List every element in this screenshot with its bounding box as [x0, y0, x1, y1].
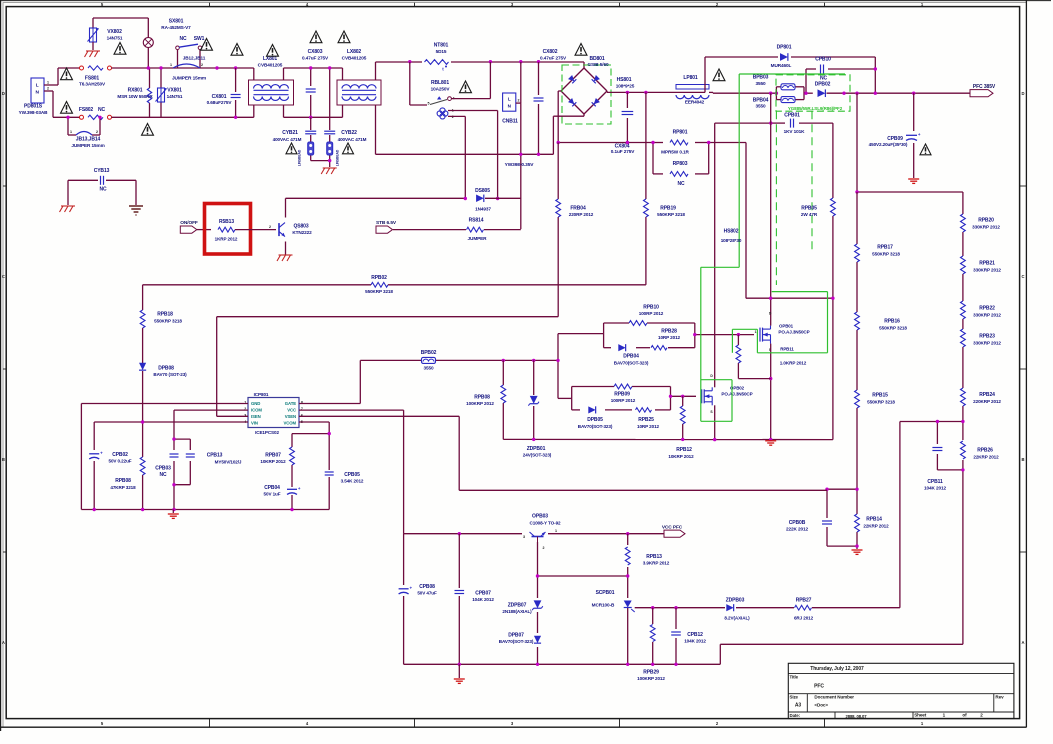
label RP803 — [673, 161, 688, 187]
green heatsink box OPB02 — [701, 379, 732, 381]
svg-text:MY50V/102/J: MY50V/102/J — [215, 460, 242, 465]
label NT801 — [434, 43, 449, 54]
wire relay coil pin2 — [448, 116, 465, 198]
svg-text:RPB07: RPB07 — [265, 453, 281, 459]
label RX801 — [117, 87, 153, 99]
resistor RP801 — [670, 140, 688, 145]
svg-text:1KV 101K: 1KV 101K — [784, 129, 806, 134]
resistor RPB17 — [855, 244, 860, 262]
capacitor CPB08 — [399, 588, 409, 593]
svg-text:RP803: RP803 — [673, 161, 688, 167]
resistor RPB20 — [961, 214, 966, 232]
svg-text:222K 2012: 222K 2012 — [786, 527, 809, 532]
wire RPB05 chain — [832, 123, 834, 440]
svg-text:330KRP 2012: 330KRP 2012 — [973, 312, 1001, 317]
thermistor NT801 — [425, 60, 449, 65]
junction rail B — [408, 60, 540, 63]
svg-text:104K 2012: 104K 2012 — [924, 486, 947, 491]
wire RPB10 loop — [604, 323, 695, 348]
svg-text:NT801: NT801 — [434, 43, 449, 49]
bridge BD801 diodes — [568, 75, 576, 83]
wire OPB02 source — [714, 405, 716, 439]
label LINS BEAD right — [336, 149, 340, 166]
zener ZDPB01 — [528, 396, 539, 406]
transistor QS803 npn — [279, 223, 285, 237]
wire RPB13 branch — [627, 534, 629, 598]
junction BPB input — [769, 92, 778, 95]
wire CX801 vertical — [235, 68, 237, 117]
earth ground CYB13 — [129, 205, 143, 207]
label BPB02 — [421, 350, 437, 370]
svg-text:2888. 08.07: 2888. 08.07 — [845, 714, 867, 719]
label DPB05 — [578, 417, 613, 429]
wire CYB22 vertical — [329, 68, 331, 167]
svg-text:RPB09: RPB09 — [614, 391, 630, 397]
label RS814 — [468, 218, 488, 242]
svg-text:JUMPER 15mm: JUMPER 15mm — [71, 143, 104, 148]
junction SCR gate net — [651, 606, 678, 609]
svg-text:PFC 385V: PFC 385V — [973, 84, 996, 90]
svg-text:330KRP 2012: 330KRP 2012 — [973, 340, 1001, 345]
svg-text:YW398-0.35V: YW398-0.35V — [505, 162, 535, 168]
svg-text:RBL801: RBL801 — [431, 80, 449, 86]
svg-text:<Doc>: <Doc> — [814, 703, 828, 708]
port VCC PFC — [664, 530, 685, 537]
svg-text:CPB13: CPB13 — [207, 453, 223, 459]
zener ZDPB03 — [726, 604, 733, 611]
label OPB02 — [721, 385, 752, 396]
capacitor CX803 — [306, 88, 316, 92]
resistor RPB28 — [651, 346, 667, 350]
bead below CYB21 — [308, 142, 314, 155]
svg-text:RPB12: RPB12 — [676, 447, 692, 453]
label HS801 — [616, 77, 635, 88]
power ground MOSFET — [765, 440, 776, 442]
warning triangle left of CYB21 — [286, 143, 297, 154]
svg-text:NC: NC — [98, 107, 106, 113]
wire rail C to LX801 — [112, 116, 254, 118]
label CYB13 — [94, 168, 110, 192]
svg-text:14N751: 14N751 — [107, 36, 123, 41]
svg-text:50V 0.22uF: 50V 0.22uF — [108, 459, 131, 464]
svg-text:1KRP 2012: 1KRP 2012 — [215, 237, 238, 242]
svg-text:NC: NC — [99, 186, 107, 192]
svg-text:CPB07: CPB07 — [475, 591, 491, 597]
svg-text:GATE: GATE — [285, 401, 296, 406]
svg-text:JB12,JB11: JB12,JB11 — [183, 55, 206, 60]
svg-text:BPB03: BPB03 — [753, 75, 769, 81]
svg-text:5D15: 5D15 — [436, 49, 447, 54]
wire DS805 to corner — [485, 197, 521, 199]
warning triangle right of LP801 — [713, 69, 725, 81]
label SX801 — [161, 19, 191, 30]
label RPB07 — [260, 453, 286, 465]
wire pin3 ISEN — [217, 415, 248, 417]
label RPB09 — [611, 391, 636, 403]
label CPB0B — [786, 520, 809, 532]
junction CX801 bottom — [234, 116, 237, 119]
svg-text:RPB23: RPB23 — [979, 334, 995, 340]
svg-text:PD801S: PD801S — [24, 104, 43, 110]
wire BPB03 loop — [776, 87, 812, 100]
resistor RPB09 — [614, 384, 632, 389]
svg-text:B: B — [2, 457, 5, 462]
svg-text:RPB21: RPB21 — [979, 261, 995, 267]
wire control ground rail — [81, 509, 329, 511]
svg-text:10RP 2012: 10RP 2012 — [637, 424, 660, 429]
svg-text:Sheet: Sheet — [914, 713, 927, 718]
title block grid — [788, 663, 1014, 718]
wire DP801 branch — [705, 57, 875, 93]
jumper JB13,JB14 — [67, 117, 69, 135]
resistor RX801 — [147, 88, 151, 103]
warning triangle right of SW1 — [201, 39, 213, 51]
wire pin5 VCOM — [299, 422, 329, 434]
wire CPB10 loop — [806, 69, 875, 93]
svg-text:1: 1 — [755, 330, 757, 334]
wire RPB29 hang — [652, 608, 654, 665]
warning triangle above LX802 — [338, 31, 350, 43]
transformer LX802 common mode choke — [337, 80, 381, 105]
label ZDPB01 — [523, 446, 552, 458]
wire SCR gate net — [635, 607, 900, 609]
svg-text:SCPB01: SCPB01 — [596, 590, 615, 596]
resistor RPB22 — [961, 301, 966, 319]
wire divider top — [857, 93, 963, 213]
capacitor CPB09 — [906, 134, 917, 139]
wire QS803 collector — [286, 198, 466, 217]
svg-text:ON/OFF: ON/OFF — [180, 220, 198, 226]
label STB 6.5V — [376, 220, 397, 226]
diode DPB02 — [818, 89, 826, 97]
wire CPB09 vertical — [913, 93, 915, 178]
svg-text:BPB02: BPB02 — [421, 350, 437, 356]
bead BPB04 — [781, 97, 795, 103]
wire CX802 vertical — [538, 62, 540, 154]
relay RBL801 contact — [448, 97, 452, 101]
wire RPB09 loop — [572, 387, 696, 410]
junction OPB01 source — [769, 377, 772, 380]
wire QS803 emitter — [285, 242, 287, 255]
svg-text:RPB11: RPB11 — [780, 347, 794, 352]
wire rail C left — [53, 116, 81, 118]
label ICE1PCS02 — [255, 430, 279, 435]
chassis ground CYB2x — [323, 167, 337, 169]
resistor RP803 — [670, 172, 688, 177]
diode DS805 — [476, 195, 484, 202]
junction sense rail — [557, 141, 630, 144]
green dashed line HS802 right — [811, 111, 813, 252]
resistor RPB08 gate — [501, 385, 506, 403]
wire VCOM tee — [292, 434, 329, 510]
svg-text:R5B13: R5B13 — [219, 219, 234, 225]
wire rail C LX801-LX802 — [284, 116, 343, 118]
wire CPB03 loop — [174, 439, 190, 509]
label ONOFF — [180, 220, 198, 226]
svg-text:FRB04: FRB04 — [570, 206, 586, 212]
wire CPB07 vert — [458, 534, 460, 665]
svg-text:CYB21: CYB21 — [282, 130, 298, 136]
svg-text:3550: 3550 — [755, 81, 766, 86]
capacitor CX801 — [231, 94, 241, 98]
svg-text:Size: Size — [790, 694, 799, 699]
wire RPB19 riser — [645, 92, 647, 284]
svg-text:C: C — [1022, 274, 1025, 279]
svg-text:2W 47R: 2W 47R — [801, 212, 818, 217]
power ground VCC section — [454, 678, 465, 680]
label CPB13 — [207, 453, 242, 465]
svg-text:CX803: CX803 — [308, 49, 323, 55]
svg-text:EER4042: EER4042 — [685, 100, 705, 105]
svg-text:RS814: RS814 — [469, 218, 484, 224]
svg-text:CX801: CX801 — [212, 94, 227, 100]
svg-text:MSR 10W 550KR: MSR 10W 550KR — [117, 94, 153, 99]
junction pin4 VIN — [141, 420, 144, 423]
wire OPB02 drain stub — [714, 381, 716, 387]
junction control gnd rail — [93, 508, 294, 511]
svg-text:VX802: VX802 — [107, 29, 122, 35]
svg-text:50V 1uF: 50V 1uF — [264, 492, 281, 497]
capacitor CPB0B — [822, 520, 832, 524]
wire FRB04 riser — [557, 143, 559, 317]
green heatsink outline main — [738, 74, 740, 267]
svg-text:100RP 2012: 100RP 2012 — [611, 398, 636, 403]
label CPB03 — [155, 466, 171, 479]
junction gate net — [502, 359, 560, 362]
zener ZDPB07 — [532, 600, 543, 610]
connector PD801S — [31, 78, 44, 103]
wire CPB11 node — [900, 422, 963, 645]
wire CYB21 vertical — [311, 117, 330, 160]
wire VCC rail — [404, 533, 664, 535]
wire pin7 VCC — [299, 410, 404, 534]
transistor OPB03 — [530, 532, 546, 542]
resistor RS814 — [467, 227, 484, 232]
warning triangle above LX801 — [267, 45, 279, 57]
label RPB08 control — [110, 478, 136, 490]
svg-text:2: 2 — [201, 63, 203, 67]
svg-text:ICE1PCS02: ICE1PCS02 — [255, 430, 279, 435]
wire STB to RS814 — [393, 229, 466, 231]
wire divider bottom node — [827, 489, 857, 549]
junction rail C fuse bypass — [66, 116, 101, 119]
wire VX801 riser — [160, 68, 162, 117]
wire DPB02 to output — [827, 92, 914, 94]
bridge rectifier BD801 outline — [561, 68, 584, 91]
junction output rail — [855, 92, 915, 95]
svg-text:RPB18: RPB18 — [157, 312, 173, 318]
svg-text:3550: 3550 — [423, 365, 434, 370]
wire ISEN net — [217, 317, 559, 417]
label CPB05 — [341, 472, 364, 484]
svg-text:C1008-Y TO-92: C1008-Y TO-92 — [530, 520, 562, 525]
label CPB01 — [784, 112, 806, 134]
chassis ground QS803 — [279, 254, 293, 256]
svg-text:PFC: PFC — [814, 684, 824, 690]
svg-text:5: 5 — [428, 102, 430, 106]
label DP801 — [771, 45, 792, 68]
power ground CPB09 — [908, 178, 919, 180]
svg-text:550KRP 3218: 550KRP 3218 — [872, 251, 900, 256]
label YG885 module — [788, 106, 843, 111]
junction OPB03 base net — [536, 574, 630, 577]
resistor FRB04 — [556, 199, 561, 217]
capacitor CYB21 — [305, 131, 316, 135]
capacitor CYB13 — [100, 176, 104, 185]
junction OPB01 gate — [693, 333, 740, 336]
svg-text:550KRP 3218: 550KRP 3218 — [365, 289, 393, 294]
svg-text:FS801: FS801 — [85, 75, 100, 81]
svg-text:550KRP 3218: 550KRP 3218 — [867, 399, 895, 404]
junction DS805 wire — [464, 197, 500, 200]
svg-text:400VAC 471M: 400VAC 471M — [273, 137, 302, 142]
spark gap SX801 — [143, 38, 153, 48]
svg-text:ICP801: ICP801 — [254, 392, 269, 397]
bead BPB03 — [781, 84, 795, 90]
junction CPB10 — [804, 67, 877, 95]
svg-text:DPB05: DPB05 — [587, 417, 603, 423]
capacitor CPB13 — [186, 453, 195, 457]
wire relay contact branch — [410, 62, 427, 105]
wire OPB03 base — [538, 542, 628, 664]
label QS803 — [292, 223, 312, 235]
resistor RPB13 — [625, 547, 630, 565]
svg-text:CVB401205: CVB401205 — [258, 62, 283, 67]
label JUMPER 15mm — [172, 75, 206, 81]
resistor RPB26 — [961, 441, 966, 459]
label CPB09 — [869, 136, 908, 147]
svg-text:NC: NC — [179, 36, 187, 42]
wire relay contact to rail B — [451, 62, 490, 99]
svg-text:RPB08: RPB08 — [115, 478, 131, 484]
svg-text:1: 1 — [555, 529, 557, 533]
label DPB04 — [614, 354, 649, 366]
resistor RPB25 — [636, 408, 652, 412]
wire OPB02 drain vertical — [714, 123, 716, 381]
svg-text:CPB11: CPB11 — [927, 479, 943, 485]
label VX801 — [167, 87, 183, 99]
label RPB28 — [658, 329, 681, 341]
resistor RPB24 — [961, 388, 966, 406]
label OPB01 — [778, 323, 809, 334]
svg-text:NC: NC — [677, 181, 685, 187]
svg-text:PO.AJ.3N50CP: PO.AJ.3N50CP — [778, 329, 809, 334]
label LINS BEAD left — [298, 149, 302, 166]
wire drain link — [746, 297, 833, 299]
svg-text:14N751: 14N751 — [167, 94, 183, 99]
svg-text:22KRP 2012: 22KRP 2012 — [863, 523, 889, 528]
svg-text:RPB24: RPB24 — [979, 392, 995, 398]
transistor OPB02 mosfet — [702, 387, 713, 405]
svg-text:3550: 3550 — [755, 104, 766, 109]
wire N input to rail C — [50, 91, 53, 117]
border outer edge line — [0, 0, 2, 731]
svg-text:MUR460L: MUR460L — [771, 63, 792, 68]
label RPB16 — [879, 319, 907, 331]
svg-text:1: 1 — [70, 130, 72, 134]
junction CPB01 — [769, 121, 772, 124]
junction VCOM tee — [328, 432, 331, 435]
transistor OPB01 mosfet — [760, 326, 771, 344]
svg-text:2: 2 — [543, 546, 545, 550]
label RPB19 — [657, 206, 685, 217]
svg-text:22KRP 2012: 22KRP 2012 — [973, 454, 999, 459]
svg-text:MCR100-B: MCR100-B — [592, 603, 615, 608]
svg-text:ZDPB03: ZDPB03 — [726, 597, 745, 603]
svg-text:BAV70(SOT-323): BAV70(SOT-323) — [499, 639, 534, 644]
border zone tick marks — [209, 3, 211, 7]
svg-text:CPB12: CPB12 — [687, 632, 703, 638]
green heatsink box OPB01 — [772, 291, 828, 293]
label RPB13 — [643, 554, 670, 566]
junction rail A dots — [215, 66, 237, 69]
svg-text:RA-452MS-V7: RA-452MS-V7 — [161, 25, 191, 30]
warning triangle above LX801 left — [231, 44, 243, 56]
label BD801 — [588, 56, 609, 67]
svg-text:50V 47uF: 50V 47uF — [417, 591, 437, 596]
svg-text:LP801: LP801 — [683, 75, 698, 81]
wire pin1 GND — [81, 404, 248, 510]
svg-text:330KRP 2012: 330KRP 2012 — [973, 267, 1001, 272]
wire power bottom rail — [503, 438, 833, 440]
power ground control — [168, 513, 179, 515]
svg-text:RPB15: RPB15 — [872, 393, 888, 399]
varistor VX802 — [90, 28, 97, 42]
label ZDPB07 — [502, 603, 532, 615]
junction VCC bottom rail — [458, 663, 678, 666]
svg-text:RPB28: RPB28 — [661, 329, 677, 335]
label LP801 — [683, 75, 704, 105]
svg-text:NC: NC — [159, 472, 167, 478]
wire VCC gnd stub — [458, 664, 460, 678]
svg-text:0.1uF 275V: 0.1uF 275V — [611, 149, 635, 154]
label JB12,JB11 — [183, 55, 206, 60]
junction CPB03 loop — [172, 437, 175, 486]
svg-text:ISEN: ISEN — [251, 414, 261, 419]
bead BPB02 — [422, 357, 436, 363]
label DPB07 — [499, 633, 534, 645]
wire CPB01 branch — [715, 122, 833, 124]
SCR SCPB01 — [624, 601, 635, 613]
fuse FS801 — [80, 66, 84, 70]
svg-text:VCC PFC: VCC PFC — [662, 525, 683, 531]
label RPB20 — [972, 218, 1000, 230]
svg-text:RPB10: RPB10 — [643, 305, 659, 311]
fuse FS802 — [80, 115, 84, 119]
svg-text:NC: NC — [820, 76, 828, 82]
diode DPB08 — [139, 363, 146, 370]
svg-text:1.0KRP 2012: 1.0KRP 2012 — [780, 361, 807, 366]
svg-text:C: C — [2, 274, 5, 279]
port ONOFF — [180, 226, 197, 233]
svg-text:SX801: SX801 — [169, 19, 184, 25]
svg-text:RPB27: RPB27 — [796, 597, 812, 603]
svg-text:VCC: VCC — [287, 408, 296, 413]
svg-text:10A250V: 10A250V — [431, 87, 451, 92]
svg-text:RP801: RP801 — [673, 130, 688, 136]
warning triangle near RBL801 — [460, 81, 472, 93]
svg-text:CPB03: CPB03 — [155, 466, 171, 472]
wire CX803 vertical — [310, 68, 312, 117]
svg-text:DP801: DP801 — [777, 45, 792, 51]
svg-text:RPB26: RPB26 — [977, 448, 993, 454]
label CPB08 — [417, 584, 437, 596]
svg-text:LINSBEAD: LINSBEAD — [298, 149, 302, 166]
svg-text:JUMPER 15mm: JUMPER 15mm — [172, 75, 206, 81]
svg-text:RPB08: RPB08 — [474, 394, 490, 400]
resistor R5B13 — [218, 227, 235, 232]
svg-text:1: 1 — [170, 63, 172, 67]
